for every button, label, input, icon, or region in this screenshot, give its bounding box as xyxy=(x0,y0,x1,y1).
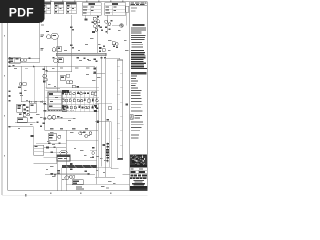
tie-in marks on pipe band xyxy=(100,57,106,59)
pipe line y126.8 xyxy=(8,126,34,128)
title block number band xyxy=(130,186,147,191)
drawing border bottom xyxy=(8,190,148,192)
junction marks on y173.7 xyxy=(51,173,57,176)
title block cell row A xyxy=(130,170,148,174)
wide header table 5 xyxy=(105,3,126,15)
pipe line y121.7 right xyxy=(95,121,111,123)
flag left border y100 xyxy=(8,100,10,102)
pipe line y147.5 xyxy=(44,147,66,149)
pipe line y174.5 arrow to notes xyxy=(122,174,130,176)
small marks near riser pair x109-111 xyxy=(107,107,112,121)
pipe line y166.5 xyxy=(62,165,97,168)
pipe line y172.8 xyxy=(50,173,90,175)
title block centered light text xyxy=(133,180,143,183)
notes column left border xyxy=(129,2,131,191)
notes list xyxy=(131,76,142,94)
title block cell row B xyxy=(130,174,148,177)
marks x57-60 y170-174 xyxy=(58,170,60,174)
junction marks y121-127 xyxy=(37,122,43,128)
instrument cluster top right xyxy=(105,16,113,35)
title block dark band 165-167.5 xyxy=(130,165,147,167)
bottom-left junction box xyxy=(34,145,44,155)
valve cluster x112-118 y41-48 xyxy=(112,42,118,48)
legend table box 2 xyxy=(54,2,63,14)
dashed utility line y110.8 xyxy=(46,110,76,112)
junction marks x93-97 y67-74 xyxy=(93,68,105,74)
notes lower lines xyxy=(131,122,144,131)
pump P-1 xyxy=(58,170,69,180)
pipe line y122.6 xyxy=(15,122,36,124)
notes paragraph 2 dense xyxy=(131,50,147,69)
title block textured row 177.3 xyxy=(130,178,146,180)
marks under band x83-89 xyxy=(83,57,89,60)
vendor oval label above package box xyxy=(60,151,67,155)
mid cluster x52-62 y46-53 xyxy=(52,47,61,52)
pipe line y66.4 xyxy=(8,65,95,67)
notes item list 1 xyxy=(132,42,143,47)
drawing border right xyxy=(146,2,148,191)
light vertical x34.5 xyxy=(34,66,36,99)
mark below cluster x30-34 y134-139 xyxy=(31,127,34,145)
valve cluster x70-73 y163-171 xyxy=(69,163,75,178)
notes paragraph 1 xyxy=(131,27,146,40)
mid-left small cluster y82-88 xyxy=(18,83,26,88)
compressor skid dense cluster xyxy=(46,85,113,112)
pipe line y150.5 right xyxy=(90,150,97,152)
pipe line y152.5 xyxy=(44,152,60,154)
zone number ticks top margin xyxy=(50,0,123,2)
marks on riser x44.7 upper xyxy=(42,68,47,82)
drum cluster under band xyxy=(53,57,64,62)
notes extra lines xyxy=(131,95,143,111)
instrument bubbles on center lines xyxy=(79,132,92,138)
downcomer x57.1 xyxy=(56,161,58,191)
title block revision table xyxy=(130,155,147,166)
marks x84-90 y169-175 xyxy=(84,170,89,174)
second header line y62.2 xyxy=(8,59,40,63)
riser x46.5 xyxy=(46,66,48,88)
pipe line y167 right xyxy=(97,166,111,168)
utility box top right xyxy=(125,6,129,26)
svg-text:PDF: PDF xyxy=(9,5,34,19)
riser x56.5 xyxy=(56,148,58,164)
notes title band 2 xyxy=(131,72,147,74)
title block centered dark text xyxy=(132,183,145,186)
legend table box 3 xyxy=(66,2,76,14)
pipe line y174.8 xyxy=(45,174,95,176)
faint text under header box xyxy=(131,8,137,12)
pipe line y88.8 xyxy=(47,88,61,90)
instrument pair x42-48 y74 xyxy=(43,74,47,80)
mark under band x77 xyxy=(77,57,79,59)
riser x105.1 xyxy=(104,56,106,177)
package unit box xyxy=(57,155,70,161)
bottom text labels xyxy=(76,186,84,189)
notes symbol cluster xyxy=(130,115,143,120)
drawing border top xyxy=(2,1,147,3)
title block light row 168-170.2 xyxy=(131,168,144,169)
flags left border y90-98 xyxy=(8,90,10,96)
feed box left xyxy=(9,57,27,63)
pipe line y157.4 xyxy=(44,156,57,158)
connector marks right xyxy=(96,121,109,152)
riser x111.2 xyxy=(110,122,112,169)
marks on riser x44.7 xyxy=(43,103,46,124)
exchanger cluster x47-58 y33-40 xyxy=(46,31,58,39)
pipe rack band xyxy=(56,53,106,56)
line y143.5 xyxy=(36,142,66,144)
page outer trim line bottom xyxy=(2,194,148,196)
marks along x93.5 y146-159 xyxy=(92,147,95,158)
small valve marks on bottom-left lines xyxy=(46,147,55,154)
2x marks right of instrument cluster xyxy=(100,27,104,31)
main center line y130.2 xyxy=(45,129,99,131)
bottom small labels right of x98 xyxy=(101,186,109,188)
labeled box under y130 line xyxy=(48,134,61,141)
PDF badge xyxy=(0,0,45,23)
line entry flags xyxy=(8,58,10,128)
small instrument row y74-86 xyxy=(60,74,73,84)
relief header dark ticks x107.6 xyxy=(106,143,109,163)
riser x66 xyxy=(65,130,67,190)
downcomer x61.7 xyxy=(61,168,63,191)
center line labels xyxy=(50,128,88,129)
line from band to column top xyxy=(105,58,120,60)
notes title band 1 xyxy=(132,24,144,26)
riser x98.2 xyxy=(97,103,99,177)
scattered tiny line-number labels xyxy=(14,19,129,184)
pipe line y168.7 xyxy=(111,168,118,170)
riser x94.6 xyxy=(96,15,98,53)
drawing border left xyxy=(7,2,9,191)
mark on x21 riser y93 xyxy=(20,93,22,95)
page outer trim line left xyxy=(1,0,3,195)
flag below table B4 xyxy=(85,16,88,21)
zone letter ticks left margin xyxy=(4,35,5,156)
valve manifold above band end xyxy=(99,46,105,53)
riser x44.7 xyxy=(44,66,46,130)
riser x98.6 xyxy=(96,66,98,184)
pump pair on line y118 xyxy=(45,116,75,120)
junction marks x93-97 y58-62 xyxy=(94,58,98,62)
valve row line y101.8 xyxy=(21,101,46,103)
drawing number header box xyxy=(130,2,148,6)
zone number ticks bottom margin xyxy=(50,193,111,194)
pipe line y177 right xyxy=(95,176,115,178)
notes lowest lines xyxy=(131,135,139,139)
line column bottom to header y168.7 xyxy=(111,168,119,170)
ticks on riser x71.5 xyxy=(70,26,74,48)
left mid equipment cluster xyxy=(17,103,37,122)
marks on y66 line xyxy=(12,57,35,67)
crossed circle instrument x121.5 y25.5 xyxy=(112,24,123,27)
riser x109.6 xyxy=(109,122,111,167)
pipe line y184 xyxy=(66,183,130,185)
pipe line y58.6 xyxy=(8,58,40,60)
riser x21.2 xyxy=(20,66,22,101)
separator vessel mid-left xyxy=(48,92,62,110)
pipe line y160 xyxy=(70,160,97,162)
wide header table 4 xyxy=(82,3,101,15)
valve row left xyxy=(29,101,42,103)
legend table box 1 xyxy=(43,2,51,14)
riser x39.5 xyxy=(39,18,41,59)
bottom mid instrument cluster xyxy=(72,180,83,185)
riser x71.5 xyxy=(71,15,73,72)
instrument cluster top center xyxy=(92,16,100,33)
pipe line y163.8 xyxy=(34,163,57,165)
column vessel C-1 xyxy=(117,60,123,160)
riser x101.3 xyxy=(100,56,102,166)
pipe line y71.8 xyxy=(47,71,72,73)
riser labels xyxy=(40,34,44,50)
flag on notes border x125-129 y103 xyxy=(126,103,129,105)
pipe line y140.6 xyxy=(66,140,99,142)
riser x57.5 xyxy=(57,39,59,92)
